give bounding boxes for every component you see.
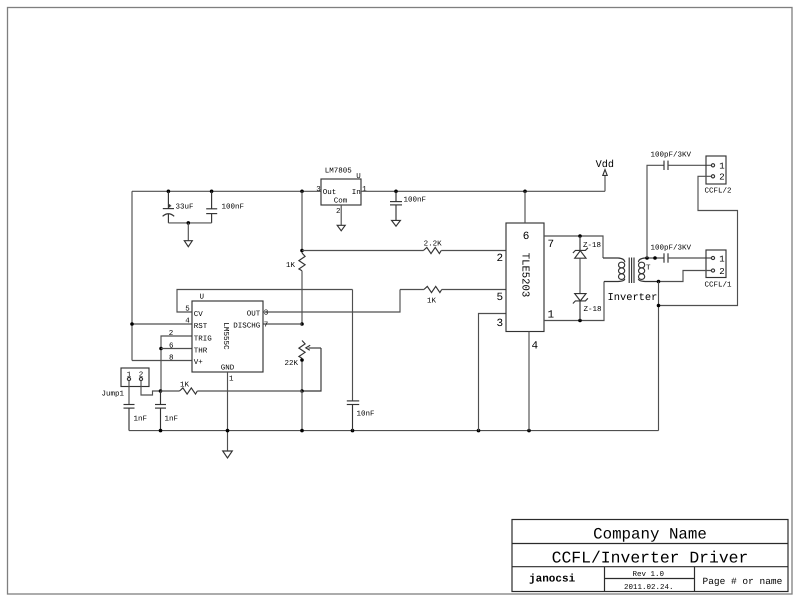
wire 1K top lead	[301, 191, 303, 253]
wire bottom rail	[129, 430, 659, 432]
svg-text:3: 3	[264, 309, 269, 318]
svg-text:2: 2	[719, 267, 724, 277]
svg-text:100nF: 100nF	[222, 203, 245, 212]
node junction pin6	[523, 190, 527, 194]
wire pin6	[524, 191, 526, 223]
node junction rail 10nF	[351, 429, 355, 433]
svg-text:CV: CV	[194, 310, 204, 319]
node junction rail c7	[159, 429, 163, 433]
svg-text:1: 1	[719, 254, 724, 264]
svg-text:8: 8	[169, 354, 174, 363]
capacitor C6 1nF	[124, 405, 148, 431]
diode D1 Z-18	[573, 236, 601, 258]
transformer T1 primary	[603, 258, 625, 282]
svg-text:CCFL/Inverter Driver: CCFL/Inverter Driver	[552, 549, 749, 568]
wire top rail left	[132, 190, 321, 192]
transformer core	[629, 258, 634, 284]
svg-text:CCFL/2: CCFL/2	[705, 187, 732, 196]
wire GND lead	[227, 372, 229, 451]
svg-text:CCFL/1: CCFL/1	[705, 281, 733, 290]
wire pin2 lead	[340, 205, 342, 225]
resistor R1 1K vertical	[286, 253, 305, 271]
svg-text:1nF: 1nF	[165, 416, 179, 424]
wire pin7	[544, 236, 603, 258]
wire CCFL1 pin2	[659, 271, 712, 282]
node junction sec bottom	[657, 280, 661, 284]
svg-text:Page # or name: Page # or name	[703, 576, 783, 587]
op-amp U2 LM7805	[316, 167, 367, 217]
svg-text:3: 3	[497, 318, 504, 330]
svg-text:4: 4	[185, 318, 190, 326]
svg-text:5: 5	[185, 306, 190, 314]
wire 1K to DISCHG	[301, 271, 303, 324]
wire zener mid	[579, 258, 581, 293]
wire gnd lead	[187, 223, 189, 241]
ground	[184, 241, 192, 247]
capacitor C7 1nF	[155, 391, 178, 431]
node junction 2.2K tee	[300, 249, 304, 253]
wire secondary return	[658, 282, 660, 431]
wire V+	[132, 360, 192, 362]
resistor R5 1K	[400, 286, 442, 305]
node junction return mid	[657, 304, 661, 308]
svg-text:Com: Com	[334, 197, 348, 206]
svg-text:Out: Out	[323, 188, 337, 197]
wire 1K to pot loop	[197, 390, 302, 392]
node junction pot loop	[300, 389, 304, 393]
svg-text:2: 2	[497, 253, 504, 265]
capacitor C2 100nF	[206, 191, 244, 223]
wire jump pin2 path	[141, 381, 161, 395]
svg-text:In: In	[352, 189, 361, 197]
node junction trig/cap2	[159, 389, 163, 393]
node junction TRIG/THR	[159, 347, 163, 351]
svg-text:2: 2	[169, 329, 174, 338]
wire CCFL2 pin2 return	[659, 176, 738, 305]
potentiometer R4 22K	[285, 341, 322, 392]
wire caps bottom	[168, 222, 211, 224]
node junction rail gnd	[226, 429, 230, 433]
svg-text:V+: V+	[194, 359, 204, 367]
node junction sec top2	[653, 256, 657, 260]
wire top rail right	[361, 190, 605, 192]
svg-text:THR: THR	[194, 348, 208, 356]
wire 2.2K left	[302, 250, 423, 252]
wire CV loop	[177, 290, 353, 313]
svg-text:Z-18: Z-18	[583, 241, 601, 250]
node junction RST	[130, 322, 134, 326]
node junction 33uF top	[167, 190, 171, 194]
wire pot to rail	[301, 391, 303, 431]
svg-text:1K: 1K	[286, 262, 296, 270]
svg-text:33uF: 33uF	[176, 203, 194, 212]
wire DISCHG	[263, 323, 302, 325]
svg-text:LM7805: LM7805	[325, 167, 353, 176]
connector CCFL/2	[705, 156, 732, 196]
svg-text:10nF: 10nF	[357, 410, 375, 419]
node junction pot bottom	[300, 358, 304, 362]
power Vdd	[603, 170, 607, 176]
wire Vdd riser	[604, 176, 606, 192]
ground	[223, 451, 233, 458]
wire pot bottom	[301, 358, 303, 391]
svg-text:T: T	[646, 265, 651, 273]
svg-text:2: 2	[336, 207, 341, 216]
svg-text:2: 2	[139, 371, 144, 380]
svg-text:DISCHG: DISCHG	[233, 322, 261, 331]
wire 2.2K right to pin2	[441, 250, 506, 252]
wire secondary top	[646, 257, 664, 259]
svg-text:22K: 22K	[285, 359, 299, 368]
node junction rail/1K	[300, 190, 304, 194]
resistor R2 1K	[161, 382, 198, 395]
svg-text:6: 6	[169, 342, 174, 351]
svg-text:Jump1: Jump1	[102, 391, 125, 399]
svg-text:TRIG: TRIG	[194, 335, 213, 344]
svg-text:1: 1	[548, 310, 555, 322]
node junction sec top	[645, 256, 649, 260]
wire CV loop drop	[352, 290, 354, 401]
svg-text:1: 1	[719, 162, 724, 172]
wire OUT	[263, 290, 400, 313]
svg-text:TLE5203: TLE5203	[519, 253, 531, 298]
node junction zener bottom	[578, 319, 582, 323]
wire left rail vertical	[131, 191, 133, 360]
svg-text:Company Name: Company Name	[593, 526, 707, 544]
wire jump pin1 lead	[128, 381, 130, 405]
capacitor C4 100pF/3KV	[651, 244, 692, 263]
capacitor C1 33uF	[163, 191, 194, 223]
ground	[392, 220, 401, 226]
svg-text:Z-18: Z-18	[584, 305, 602, 314]
connector CCFL/1	[705, 250, 733, 290]
svg-text:RST: RST	[194, 322, 208, 331]
capacitor C5 100pF/3KV	[651, 151, 692, 171]
node junction zener top	[578, 234, 582, 238]
svg-text:OUT: OUT	[247, 310, 261, 319]
svg-text:Inverter: Inverter	[608, 292, 658, 304]
op-amp U3 TLE5203	[497, 223, 555, 353]
svg-text:1: 1	[229, 376, 234, 384]
diode D2 Z-18	[573, 294, 602, 321]
svg-text:Vdd: Vdd	[596, 159, 614, 171]
capacitor C3 100nF	[390, 191, 426, 220]
svg-text:U: U	[356, 173, 361, 181]
node junction DISCHG	[300, 322, 304, 326]
svg-text:6: 6	[523, 231, 530, 243]
capacitor C8 10nF	[347, 401, 375, 431]
node junction rail pin3	[477, 429, 481, 433]
svg-text:1K: 1K	[180, 382, 190, 390]
svg-text:1: 1	[362, 186, 367, 194]
svg-text:2011.02.24.: 2011.02.24.	[624, 583, 674, 592]
node junction 100nF top	[210, 190, 214, 194]
svg-text:U: U	[200, 294, 205, 302]
node junction 100nF-2	[394, 190, 398, 194]
ground	[337, 225, 345, 231]
svg-text:Rev 1.0: Rev 1.0	[633, 570, 665, 579]
svg-text:2: 2	[719, 173, 724, 183]
svg-text:7: 7	[264, 322, 269, 330]
wire RST	[132, 323, 192, 325]
wire 1K right to pin5	[442, 289, 506, 291]
svg-text:100nF: 100nF	[404, 195, 427, 204]
svg-text:100pF/3KV: 100pF/3KV	[651, 244, 692, 253]
wire TRIG	[161, 336, 192, 391]
wire pin4	[528, 332, 530, 431]
svg-text:2.2K: 2.2K	[424, 239, 443, 248]
wire C4 to CCFL1	[668, 257, 711, 259]
svg-text:LM555C: LM555C	[221, 322, 230, 350]
node junction rail pot	[300, 429, 304, 433]
wire THR	[161, 348, 192, 350]
svg-text:100pF/3KV: 100pF/3KV	[651, 151, 692, 160]
transformer T1 secondary	[638, 258, 658, 282]
svg-text:1K: 1K	[427, 298, 437, 306]
svg-text:7: 7	[548, 239, 555, 251]
resistor R3 2.2K	[423, 239, 442, 253]
svg-text:1nF: 1nF	[134, 416, 148, 424]
title block frame	[512, 520, 788, 592]
svg-text:5: 5	[497, 292, 504, 304]
svg-text:GND: GND	[221, 364, 235, 373]
node junction rail pin4	[527, 429, 531, 433]
wire C5 to CCFL2	[668, 164, 711, 166]
svg-text:1: 1	[127, 372, 132, 380]
node junction gnd	[187, 221, 191, 225]
svg-text:4: 4	[532, 341, 539, 353]
wire pin1	[544, 282, 604, 321]
svg-text:3: 3	[316, 185, 321, 194]
op-amp U1 LM555C	[169, 294, 269, 384]
connector JP1 Jump1	[102, 368, 150, 399]
svg-text:janocsi: janocsi	[529, 574, 576, 586]
wire pin3	[479, 314, 507, 431]
wire riser to top cap	[647, 165, 664, 258]
